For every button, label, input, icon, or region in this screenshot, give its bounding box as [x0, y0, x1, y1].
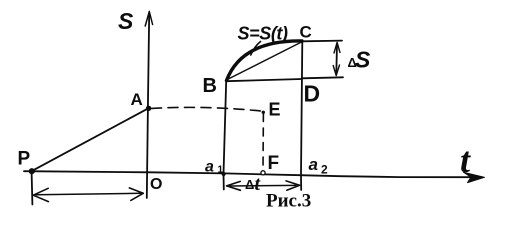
svg-text:S: S [355, 47, 371, 73]
svg-text:1: 1 [218, 165, 224, 176]
svg-text:A: A [131, 90, 143, 109]
svg-text:C: C [300, 23, 312, 42]
svg-text:t: t [460, 140, 471, 180]
svg-text:a: a [309, 155, 318, 174]
svg-text:Δ: Δ [245, 177, 254, 192]
svg-text:a: a [205, 159, 214, 176]
svg-text:2: 2 [321, 163, 328, 177]
svg-text:P: P [18, 149, 31, 170]
svg-text:B: B [203, 75, 217, 97]
svg-text:S=S(t): S=S(t) [238, 24, 289, 44]
svg-text:D: D [304, 81, 321, 107]
svg-text:E: E [269, 100, 281, 120]
svg-text:O: O [150, 176, 162, 193]
svg-text:S: S [118, 8, 134, 34]
svg-text:Рис.3: Рис.3 [266, 191, 311, 212]
svg-text:F: F [268, 153, 280, 174]
